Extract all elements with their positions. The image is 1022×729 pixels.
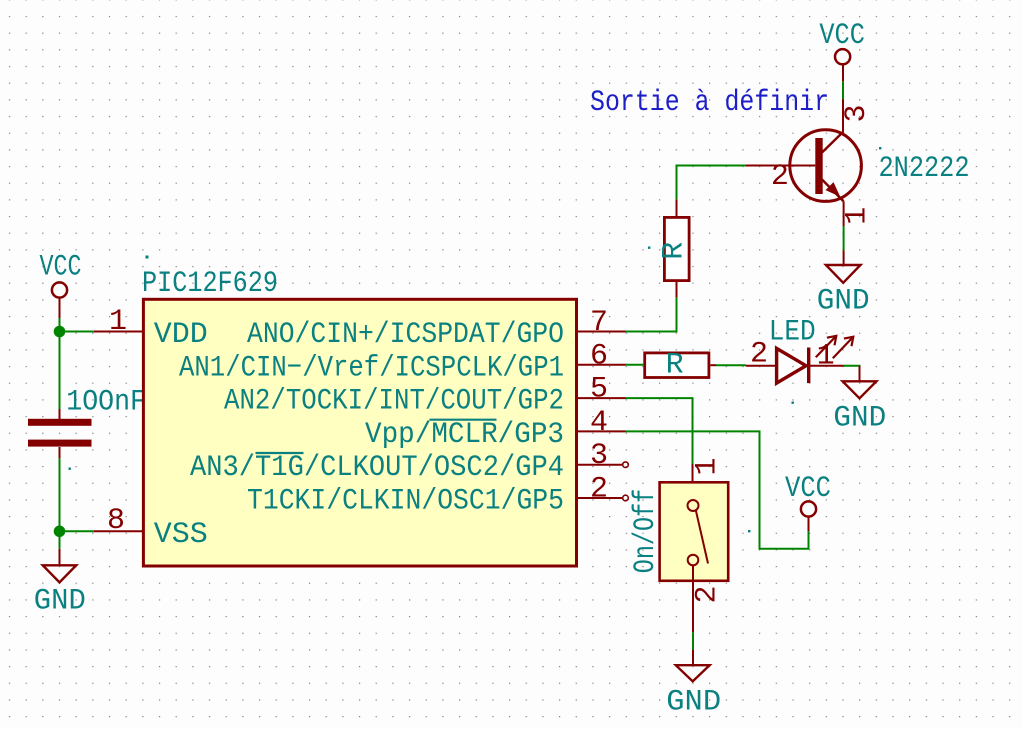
- switch SW1 On/Off: [629, 457, 728, 632]
- resistor R (horizontal): [645, 348, 716, 382]
- svg-text:VDD: VDD: [154, 318, 208, 352]
- svg-text:3: 3: [840, 104, 874, 122]
- wire pin6 to resistor: [626, 364, 644, 366]
- svg-text:6: 6: [590, 339, 608, 373]
- svg-text:R: R: [666, 348, 684, 382]
- LED D1: [746, 316, 853, 384]
- IC U1 PIC12F629 body: [142, 267, 577, 566]
- svg-text:GND: GND: [666, 686, 721, 720]
- wire junction down to capacitor: [59, 332, 61, 410]
- svg-text:T1CKI/CLKIN/OSC1/GP5: T1CKI/CLKIN/OSC1/GP5: [247, 485, 564, 519]
- wire junction to ground: [59, 531, 61, 549]
- anchor dots: [146, 256, 149, 259]
- pin 3 AN3/T1G/CLKOUT/OSC2/GP4: [190, 439, 628, 485]
- pin 8 VSS: [94, 504, 208, 552]
- wire resistor to LED: [716, 364, 746, 366]
- svg-text:5: 5: [590, 373, 608, 407]
- svg-text:3: 3: [590, 439, 608, 473]
- svg-text:7: 7: [590, 306, 608, 340]
- wire pin4 to VCC: [626, 431, 809, 548]
- pin 4 Vpp/MCLR/GP3: [365, 406, 626, 452]
- wire pin5 to switch: [626, 398, 693, 464]
- wire emitter to ground: [843, 226, 845, 250]
- pin 6 AN1/CIN-/Vref/ICSPCLK/GP1: [179, 339, 626, 385]
- wire junction to pin8: [60, 530, 94, 532]
- junction VDD node: [54, 326, 66, 338]
- junction VSS node: [54, 526, 66, 538]
- svg-text:2: 2: [590, 473, 608, 507]
- svg-text:ANO/CIN+/ICSPDAT/GPO: ANO/CIN+/ICSPDAT/GPO: [247, 318, 564, 352]
- wire pin7 to resistor: [626, 297, 677, 331]
- svg-text:VCC: VCC: [785, 472, 831, 506]
- svg-text:GND: GND: [34, 585, 86, 619]
- svg-text:AN2/TOCKI/INT/COUT/GP2: AN2/TOCKI/INT/COUT/GP2: [224, 385, 564, 419]
- ground (switch): [666, 650, 721, 720]
- svg-text:LED: LED: [769, 316, 816, 350]
- svg-text:2: 2: [750, 338, 768, 372]
- wire collector to VCC: [842, 81, 844, 99]
- svg-text:Vpp/MCLR/GP3: Vpp/MCLR/GP3: [365, 418, 564, 452]
- svg-text:2N2222: 2N2222: [879, 152, 970, 186]
- svg-text:On/Off: On/Off: [629, 489, 663, 574]
- svg-text:VCC: VCC: [40, 251, 82, 285]
- svg-text:VSS: VSS: [154, 518, 208, 552]
- wire VCC to junction: [59, 318, 61, 332]
- svg-text:1: 1: [841, 207, 875, 225]
- svg-text:2: 2: [771, 160, 789, 194]
- svg-text:4: 4: [590, 406, 608, 440]
- svg-text:AN3/T1G/CLKOUT/OSC2/GP4: AN3/T1G/CLKOUT/OSC2/GP4: [190, 451, 564, 485]
- svg-text:VCC: VCC: [819, 19, 865, 53]
- svg-text:PIC12F629: PIC12F629: [142, 267, 278, 301]
- pin 1 VDD: [94, 305, 208, 352]
- svg-text:1: 1: [691, 457, 725, 475]
- wire switch to ground: [692, 632, 694, 650]
- svg-text:1OOnF: 1OOnF: [66, 386, 146, 420]
- pin 5 AN2/T0CKI/INT/COUT/GP2: [224, 373, 626, 419]
- wire LED to ground: [844, 365, 860, 367]
- svg-text:R: R: [658, 242, 692, 260]
- svg-text:GND: GND: [833, 402, 886, 436]
- resistor R (vertical): [658, 199, 692, 297]
- wire junction to pin1: [60, 331, 94, 333]
- transistor Q1 2N2222: [746, 99, 970, 226]
- svg-text:Sortie à définir: Sortie à définir: [590, 86, 829, 120]
- power symbol VCC (left): [40, 251, 82, 319]
- wire resistor to transistor base: [677, 166, 747, 200]
- wire capacitor to lower junction: [59, 458, 61, 531]
- svg-text:2: 2: [691, 585, 725, 603]
- capacitor C1 100nF: [28, 386, 146, 459]
- power symbol VCC (top): [819, 19, 865, 81]
- pin 2 T1CKI/CLKIN/OSC1/GP5: [247, 473, 628, 519]
- ground (LED): [833, 366, 886, 436]
- svg-text:GND: GND: [817, 285, 870, 319]
- ground (transistor): [817, 250, 870, 318]
- svg-text:AN1/CIN−/Vref/ICSPCLK/GP1: AN1/CIN−/Vref/ICSPCLK/GP1: [179, 351, 564, 385]
- pin 7 AN0/CIN+/ICSPDAT/GP0: [247, 306, 626, 352]
- ground (left): [34, 549, 86, 619]
- power symbol VCC (right): [785, 472, 831, 531]
- svg-text:1: 1: [817, 340, 835, 374]
- svg-text:8: 8: [107, 504, 125, 538]
- svg-text:1: 1: [109, 305, 127, 339]
